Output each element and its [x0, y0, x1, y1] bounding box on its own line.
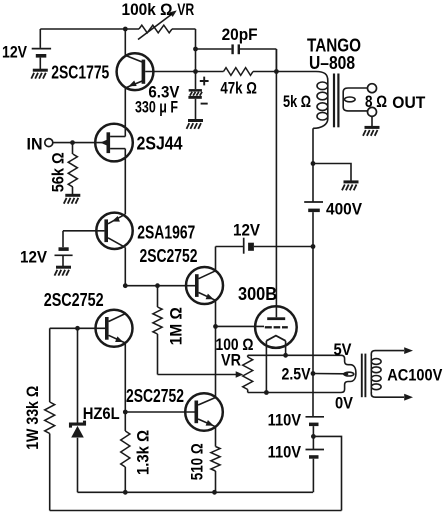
- node D on spine at Q6 base: [123, 410, 128, 415]
- svg-text:VR: VR: [177, 0, 194, 19]
- anode plate bar of V1: [267, 317, 285, 320]
- ground at T1 bottom stub: [344, 180, 359, 183]
- svg-text:2SC2752: 2SC2752: [126, 386, 184, 406]
- svg-text:1.3k Ω: 1.3k Ω: [134, 430, 153, 475]
- node input / R1 junction: [70, 140, 75, 145]
- capacitor C2 330uF electrolytic at Q1 base: [195, 72, 197, 90]
- wire B5/B6 midpoint to lower rail: [313, 436, 341, 510]
- node filament right leg on 5V wire: [283, 353, 288, 358]
- svg-text:12V: 12V: [2, 43, 28, 62]
- svg-text:47k Ω: 47k Ω: [220, 79, 257, 98]
- svg-text:AC100V: AC100V: [387, 366, 443, 385]
- grid dashes of V1: [265, 326, 272, 328]
- wire node C to Q5 base: [125, 285, 195, 287]
- filament of V1: [266, 336, 285, 341]
- svg-text:HZ6L: HZ6L: [83, 404, 120, 423]
- svg-text:8 Ω: 8 Ω: [365, 92, 387, 111]
- svg-text:IN: IN: [27, 135, 43, 154]
- ground below C2: [188, 119, 203, 122]
- wire Q1 emitter to Q2 top: [124, 88, 126, 137]
- zener diode D1 HZ6L: [77, 328, 79, 423]
- node R3 top on base wire: [155, 283, 160, 288]
- wire VR2 wiper from R3 bottom: [158, 374, 237, 376]
- wire anode lead of V1 up to feedback node: [275, 49, 277, 317]
- core of T1: [333, 74, 335, 128]
- wire Q1 base to node B: [145, 71, 195, 73]
- svg-text:330 μ F: 330 μ F: [135, 98, 178, 117]
- terminal OUT upper: [368, 84, 377, 93]
- svg-text:510 Ω: 510 Ω: [188, 443, 207, 480]
- arrow AC100V upper lead: [404, 347, 413, 354]
- node 2.5V tap on B+ vertical: [311, 371, 316, 376]
- node grid tap on emitter line: [213, 324, 218, 329]
- svg-text:12V: 12V: [233, 221, 261, 240]
- wire negative rail 1 (zener/R5/R6 to B6): [78, 491, 314, 493]
- transistor Q3 2SA1967 PNP: [96, 213, 132, 249]
- transformer T1 primary winding 5k ohm: [303, 72, 328, 129]
- svg-text:1W 33k Ω: 1W 33k Ω: [23, 386, 42, 450]
- node anode feedback junction: [274, 69, 279, 74]
- wire Q5 collector up to floating battery B2: [215, 247, 217, 271]
- svg-text:100k Ω: 100k Ω: [122, 0, 173, 19]
- node C junction spine / base wire: [123, 283, 128, 288]
- wire 5V from VR2 top to T2: [248, 354, 341, 356]
- resistor R1 56k ohm input: [72, 143, 74, 154]
- node T1 primary bottom junction: [311, 161, 316, 166]
- transformer T2 filament winding (5V/0V side): [341, 355, 356, 392]
- svg-text:56k Ω: 56k Ω: [49, 152, 68, 192]
- node R5 bottom on rail 1: [123, 490, 128, 495]
- wire top rail after VR1 to right vertical: [172, 28, 196, 30]
- node 20pF tap on right vertical: [193, 47, 198, 52]
- battery B4 400V: [312, 164, 314, 202]
- svg-text:5k Ω: 5k Ω: [283, 92, 311, 111]
- wire Q4 emitter down to R5: [124, 343, 126, 431]
- svg-text:2SC1775: 2SC1775: [51, 63, 109, 83]
- wire 0V from VR2 bottom to T2: [248, 392, 341, 394]
- wire input to Q2 gate: [53, 142, 107, 144]
- svg-text:U–808: U–808: [309, 53, 355, 73]
- node B junction Q1 base / C2 / R2: [193, 69, 198, 74]
- svg-text:0V: 0V: [335, 394, 354, 413]
- battery B6 110V (lower): [306, 449, 325, 451]
- svg-text:110V: 110V: [268, 443, 302, 462]
- ground below R1: [65, 194, 80, 197]
- wire 2.5V tap to T2 winding: [313, 373, 345, 375]
- battery B3 12V bias for Q3 (negative up): [59, 247, 69, 251]
- potentiometer VR1 100k ohm: [139, 25, 172, 33]
- node B2 on B+ vertical: [311, 244, 316, 249]
- wire OUT lower terminal to ground: [371, 116, 373, 126]
- svg-text:2SA1967: 2SA1967: [137, 223, 195, 243]
- transformer T1 secondary winding 8 ohm: [343, 88, 368, 111]
- triode V1 300B: [255, 306, 297, 348]
- wire Q2 bottom to Q3 top: [124, 149, 126, 215]
- transistor Q4 2SC2752 NPN (left): [96, 310, 133, 347]
- minus polarity mark for C2: [201, 103, 208, 105]
- resistor R5 1.3k ohm: [121, 431, 130, 467]
- node between B5 and B6: [311, 434, 316, 439]
- svg-text:1M Ω: 1M Ω: [166, 307, 185, 345]
- svg-text:110V: 110V: [268, 411, 302, 430]
- wire filament right leg to 5V wire: [285, 341, 287, 356]
- svg-text:20pF: 20pF: [222, 25, 258, 44]
- wire grid of 300B: [216, 325, 265, 327]
- svg-text:OUT: OUT: [392, 93, 426, 112]
- terminal IN input: [45, 139, 53, 147]
- svg-text:12V: 12V: [20, 248, 48, 267]
- ground below B1: [33, 69, 48, 72]
- wire Q6 base from node D: [125, 411, 194, 413]
- wire negative rail 2 (R4 to 110V midpoint): [50, 510, 342, 512]
- wire Q1 collector from top rail: [124, 29, 126, 56]
- wire filament left leg to 0V wire: [265, 341, 267, 393]
- transistor Q1 2SC1775 NPN (base on right): [117, 53, 154, 90]
- svg-text:2SC2752: 2SC2752: [44, 290, 104, 310]
- node zener tap on Q4 base wire: [75, 326, 80, 331]
- svg-text:2.5V: 2.5V: [282, 365, 312, 384]
- ground below B3: [56, 266, 71, 269]
- node filament left leg on 0V wire: [264, 390, 269, 395]
- transistor Q6 2SC2752 NPN (bottom): [185, 393, 223, 431]
- wire right vertical from top rail to node B: [195, 29, 197, 72]
- wire Q3 collector down to node C: [124, 247, 126, 285]
- wire top rail from B1 to VR1: [40, 28, 139, 30]
- battery B1 12V (top-left supply): [39, 29, 41, 48]
- svg-text:400V: 400V: [326, 200, 363, 219]
- resistor R4 1W 33k ohm: [49, 328, 51, 402]
- node R6 bottom on rail 1: [212, 490, 217, 495]
- svg-text:VR: VR: [221, 351, 241, 370]
- svg-text:2SC2752: 2SC2752: [140, 246, 198, 266]
- wire Q5 emitter down to Q6 collector: [215, 300, 217, 397]
- ground below OUT terminal: [365, 126, 380, 129]
- wire T1 bottom to ground stub: [313, 164, 351, 182]
- core of T2: [361, 354, 363, 398]
- potentiometer VR2 100 ohm hum balance: [247, 355, 249, 357]
- battery B2 12V floating (horizontal): [243, 238, 245, 254]
- arrow AC100V lower lead: [404, 394, 413, 401]
- transistor Q2 2SJ44 P-channel FET: [95, 124, 133, 162]
- svg-text:2SJ44: 2SJ44: [137, 134, 183, 154]
- wire Q4 base to left branch: [50, 327, 105, 329]
- resistor R3 1M ohm: [157, 286, 159, 307]
- battery B5 110V (upper): [306, 416, 325, 418]
- plus polarity mark for C2: [200, 77, 209, 86]
- terminal OUT lower: [368, 107, 377, 116]
- svg-text:300B: 300B: [238, 284, 277, 304]
- node junction top rail / Q1 collector: [123, 27, 128, 32]
- wire C1 right side down to anode node: [275, 49, 277, 72]
- wire Q3 base to bias battery B3: [63, 230, 104, 232]
- transistor Q5 2SC2752 NPN (middle): [186, 267, 223, 304]
- resistor R2 47k ohm feedback: [196, 71, 224, 73]
- transformer T2 primary winding AC100V side: [371, 351, 404, 356]
- resistor R6 510 ohm at Q6 emitter: [215, 427, 217, 447]
- capacitor C1 20pF: [196, 48, 232, 50]
- wire B2 to B+ vertical: [254, 246, 313, 248]
